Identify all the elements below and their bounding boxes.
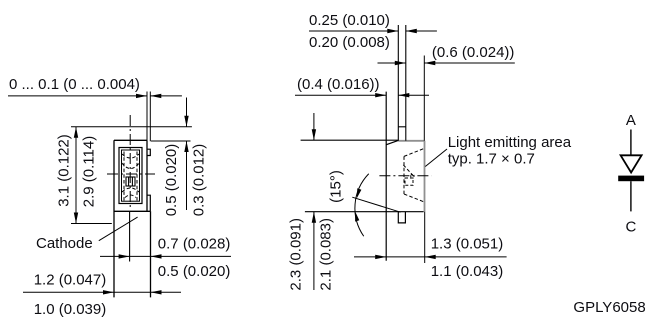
svg-text:Light emitting area: Light emitting area xyxy=(448,134,572,151)
svg-text:2.9 (0.114): 2.9 (0.114) xyxy=(80,136,97,207)
dimension 0.5 / 0.3 vertical right of top view xyxy=(151,98,208,217)
svg-text:0.20 (0.008): 0.20 (0.008) xyxy=(309,34,390,51)
svg-text:(0.6 (0.024)): (0.6 (0.024)) xyxy=(432,44,515,61)
dimension 3.1 / 2.9 vertical left xyxy=(56,127,192,224)
svg-text:0 ... 0.1 (0 ... 0.004): 0 ... 0.1 (0 ... 0.004) xyxy=(9,76,140,93)
15 degree seating plane line xyxy=(352,197,400,212)
top lead tip xyxy=(398,126,406,128)
cathode label and leader xyxy=(36,217,138,252)
svg-text:typ. 1.7 × 0.7: typ. 1.7 × 0.7 xyxy=(448,151,535,168)
svg-text:1.1 (0.043): 1.1 (0.043) xyxy=(431,263,504,280)
anode lead xyxy=(630,130,632,156)
cathode lead inner edge xyxy=(129,211,131,261)
hidden bond wire (dashed) xyxy=(403,165,413,176)
svg-text:3.1 (0.122): 3.1 (0.122) xyxy=(56,134,73,207)
svg-text:0.7 (0.028): 0.7 (0.028) xyxy=(158,236,231,253)
body left edge side view xyxy=(385,92,387,261)
dimension 0.25 / 0.20 xyxy=(309,12,437,51)
body chamfer top-left xyxy=(386,140,398,144)
vertical centerline xyxy=(129,115,131,208)
diode cathode bar xyxy=(618,176,644,182)
svg-text:(0.4 (0.016)): (0.4 (0.016)) xyxy=(297,76,380,93)
body bottom edge side view with extension xyxy=(305,211,424,213)
dimension (0.4 (0.016)) xyxy=(295,76,429,97)
cathode lead xyxy=(630,181,632,211)
dimension 0.7 / 0.5 xyxy=(100,236,231,281)
svg-text:1.3 (0.051): 1.3 (0.051) xyxy=(431,236,504,253)
svg-text:1.0 (0.039): 1.0 (0.039) xyxy=(34,301,107,318)
svg-text:1.2 (0.047): 1.2 (0.047) xyxy=(34,272,107,289)
dimension 0 ... 0.1 (0 ... 0.004) xyxy=(8,76,182,141)
svg-text:2.1 (0.083): 2.1 (0.083) xyxy=(317,218,334,291)
hidden reflector side walls (dashed) xyxy=(124,152,137,201)
dimension (0.6 (0.024)) xyxy=(378,44,515,141)
hidden contour arcs bottom (dashed) xyxy=(122,188,139,192)
bottom lead xyxy=(398,212,405,223)
svg-text:A: A xyxy=(626,112,636,129)
body outline top view xyxy=(114,140,151,297)
dimension 2.3 / 2.1 vertical xyxy=(288,113,335,291)
lead tab bottom-right xyxy=(147,195,150,211)
hidden reflector cone (dashed) xyxy=(404,148,424,202)
svg-text:0.5 (0.020): 0.5 (0.020) xyxy=(163,144,180,217)
svg-text:GPLY6058: GPLY6058 xyxy=(573,299,645,316)
hidden chip notch (dashed) xyxy=(411,175,414,178)
chip pad detail xyxy=(126,177,135,186)
inner reflector rim outer xyxy=(119,148,142,204)
svg-text:0.5 (0.020): 0.5 (0.020) xyxy=(158,263,231,280)
svg-text:2.3 (0.091): 2.3 (0.091) xyxy=(288,218,305,291)
hidden chip (dashed) xyxy=(405,178,413,185)
side view centerline xyxy=(379,175,431,177)
horizontal centerline xyxy=(107,173,155,175)
body gray edges side view xyxy=(398,141,424,212)
inner reflector rim inner xyxy=(122,150,140,201)
diode triangle xyxy=(621,155,642,172)
top reference line xyxy=(301,139,399,141)
dimension 1.3 / 1.1 xyxy=(354,212,507,280)
svg-text:C: C xyxy=(625,219,636,236)
lead tab top-right xyxy=(147,149,150,155)
svg-text:Cathode: Cathode xyxy=(36,235,93,252)
dimension (15 deg) angle xyxy=(327,170,368,236)
top lead edges xyxy=(398,25,406,141)
light emitting area label and leader xyxy=(425,134,571,168)
svg-text:0.25 (0.010): 0.25 (0.010) xyxy=(309,12,390,29)
dimension 1.2 / 1.0 xyxy=(23,272,181,319)
svg-text:(15°): (15°) xyxy=(327,170,344,203)
hidden contour arcs top (dashed) xyxy=(122,154,139,158)
svg-text:0.3 (0.012): 0.3 (0.012) xyxy=(191,144,208,217)
